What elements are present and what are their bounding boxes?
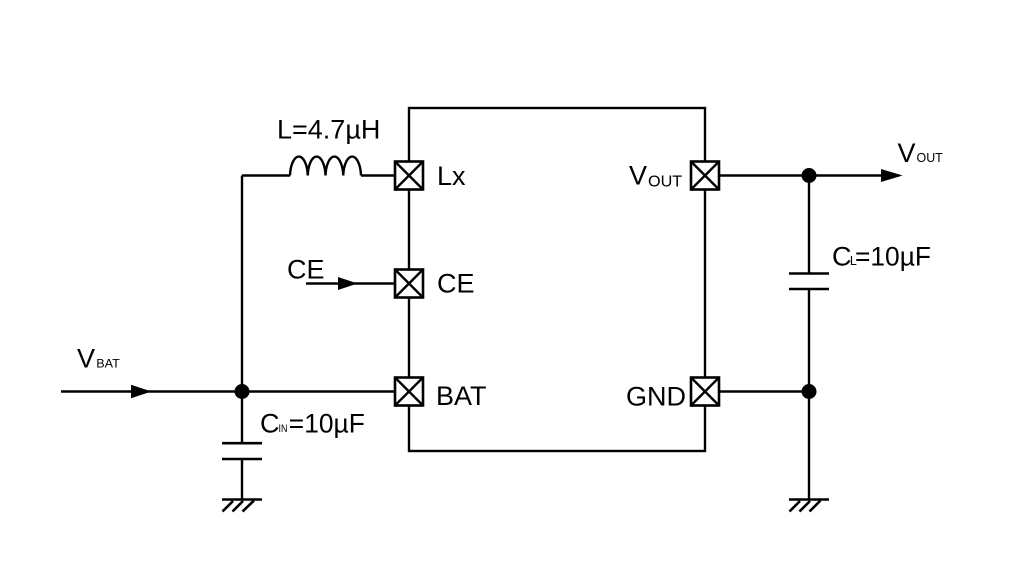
node A junction dot (VBAT/CIN/L) bbox=[235, 384, 250, 399]
node C junction dot (GND/CL) bbox=[802, 384, 817, 399]
svg-text:L=4.7µH: L=4.7µH bbox=[277, 114, 380, 144]
svg-text:=10µF: =10µF bbox=[289, 409, 365, 439]
wire inductor to Lx pin bbox=[361, 174, 395, 176]
pin GND (box with X) bbox=[691, 378, 719, 406]
pin Lx (box with X) bbox=[395, 162, 423, 190]
wire node A down to CIN bbox=[241, 392, 243, 444]
inductor L1 bbox=[290, 157, 361, 176]
svg-text:GND: GND bbox=[626, 382, 686, 412]
arrow on VBAT wire bbox=[131, 385, 152, 398]
svg-text:C: C bbox=[832, 242, 852, 272]
svg-text:IN: IN bbox=[279, 423, 288, 435]
svg-text:OUT: OUT bbox=[648, 174, 683, 191]
ground symbol left bbox=[222, 500, 262, 512]
wire CIN to ground bbox=[241, 459, 243, 499]
capacitor CL plates bbox=[789, 274, 829, 290]
svg-text:CE: CE bbox=[287, 255, 325, 285]
wire vertical from node A up to inductor bbox=[241, 176, 243, 392]
node B junction dot (VOUT/CL) bbox=[802, 168, 817, 183]
svg-text:V: V bbox=[629, 161, 647, 191]
svg-text:=10µF: =10µF bbox=[855, 242, 931, 272]
wire horizontal to inductor bbox=[242, 174, 290, 176]
svg-text:C: C bbox=[260, 409, 280, 439]
svg-text:V: V bbox=[898, 138, 916, 168]
pin BAT (box with X) bbox=[395, 378, 423, 406]
svg-text:OUT: OUT bbox=[917, 150, 943, 165]
ground symbol right bbox=[789, 500, 829, 512]
svg-text:BAT: BAT bbox=[96, 356, 120, 370]
wire VBAT input horizontal bbox=[61, 390, 395, 392]
arrow on CE wire bbox=[338, 277, 358, 290]
wire CE input bbox=[306, 282, 395, 284]
capacitor CIN plates bbox=[222, 443, 262, 459]
svg-text:Lx: Lx bbox=[437, 161, 466, 191]
svg-text:CE: CE bbox=[437, 269, 475, 299]
svg-text:V: V bbox=[77, 344, 95, 374]
wire CL to ground bbox=[808, 289, 810, 499]
wire VOUT pin to output arrow bbox=[719, 174, 899, 176]
arrow VOUT output bbox=[881, 169, 903, 182]
svg-text:BAT: BAT bbox=[436, 381, 487, 411]
IC U1 body bbox=[409, 108, 705, 451]
wire GND pin to node C bbox=[719, 390, 809, 392]
pin VOUT (box with X) bbox=[691, 162, 719, 190]
pin CE (box with X) bbox=[395, 270, 423, 298]
wire node B down to CL bbox=[808, 176, 810, 274]
